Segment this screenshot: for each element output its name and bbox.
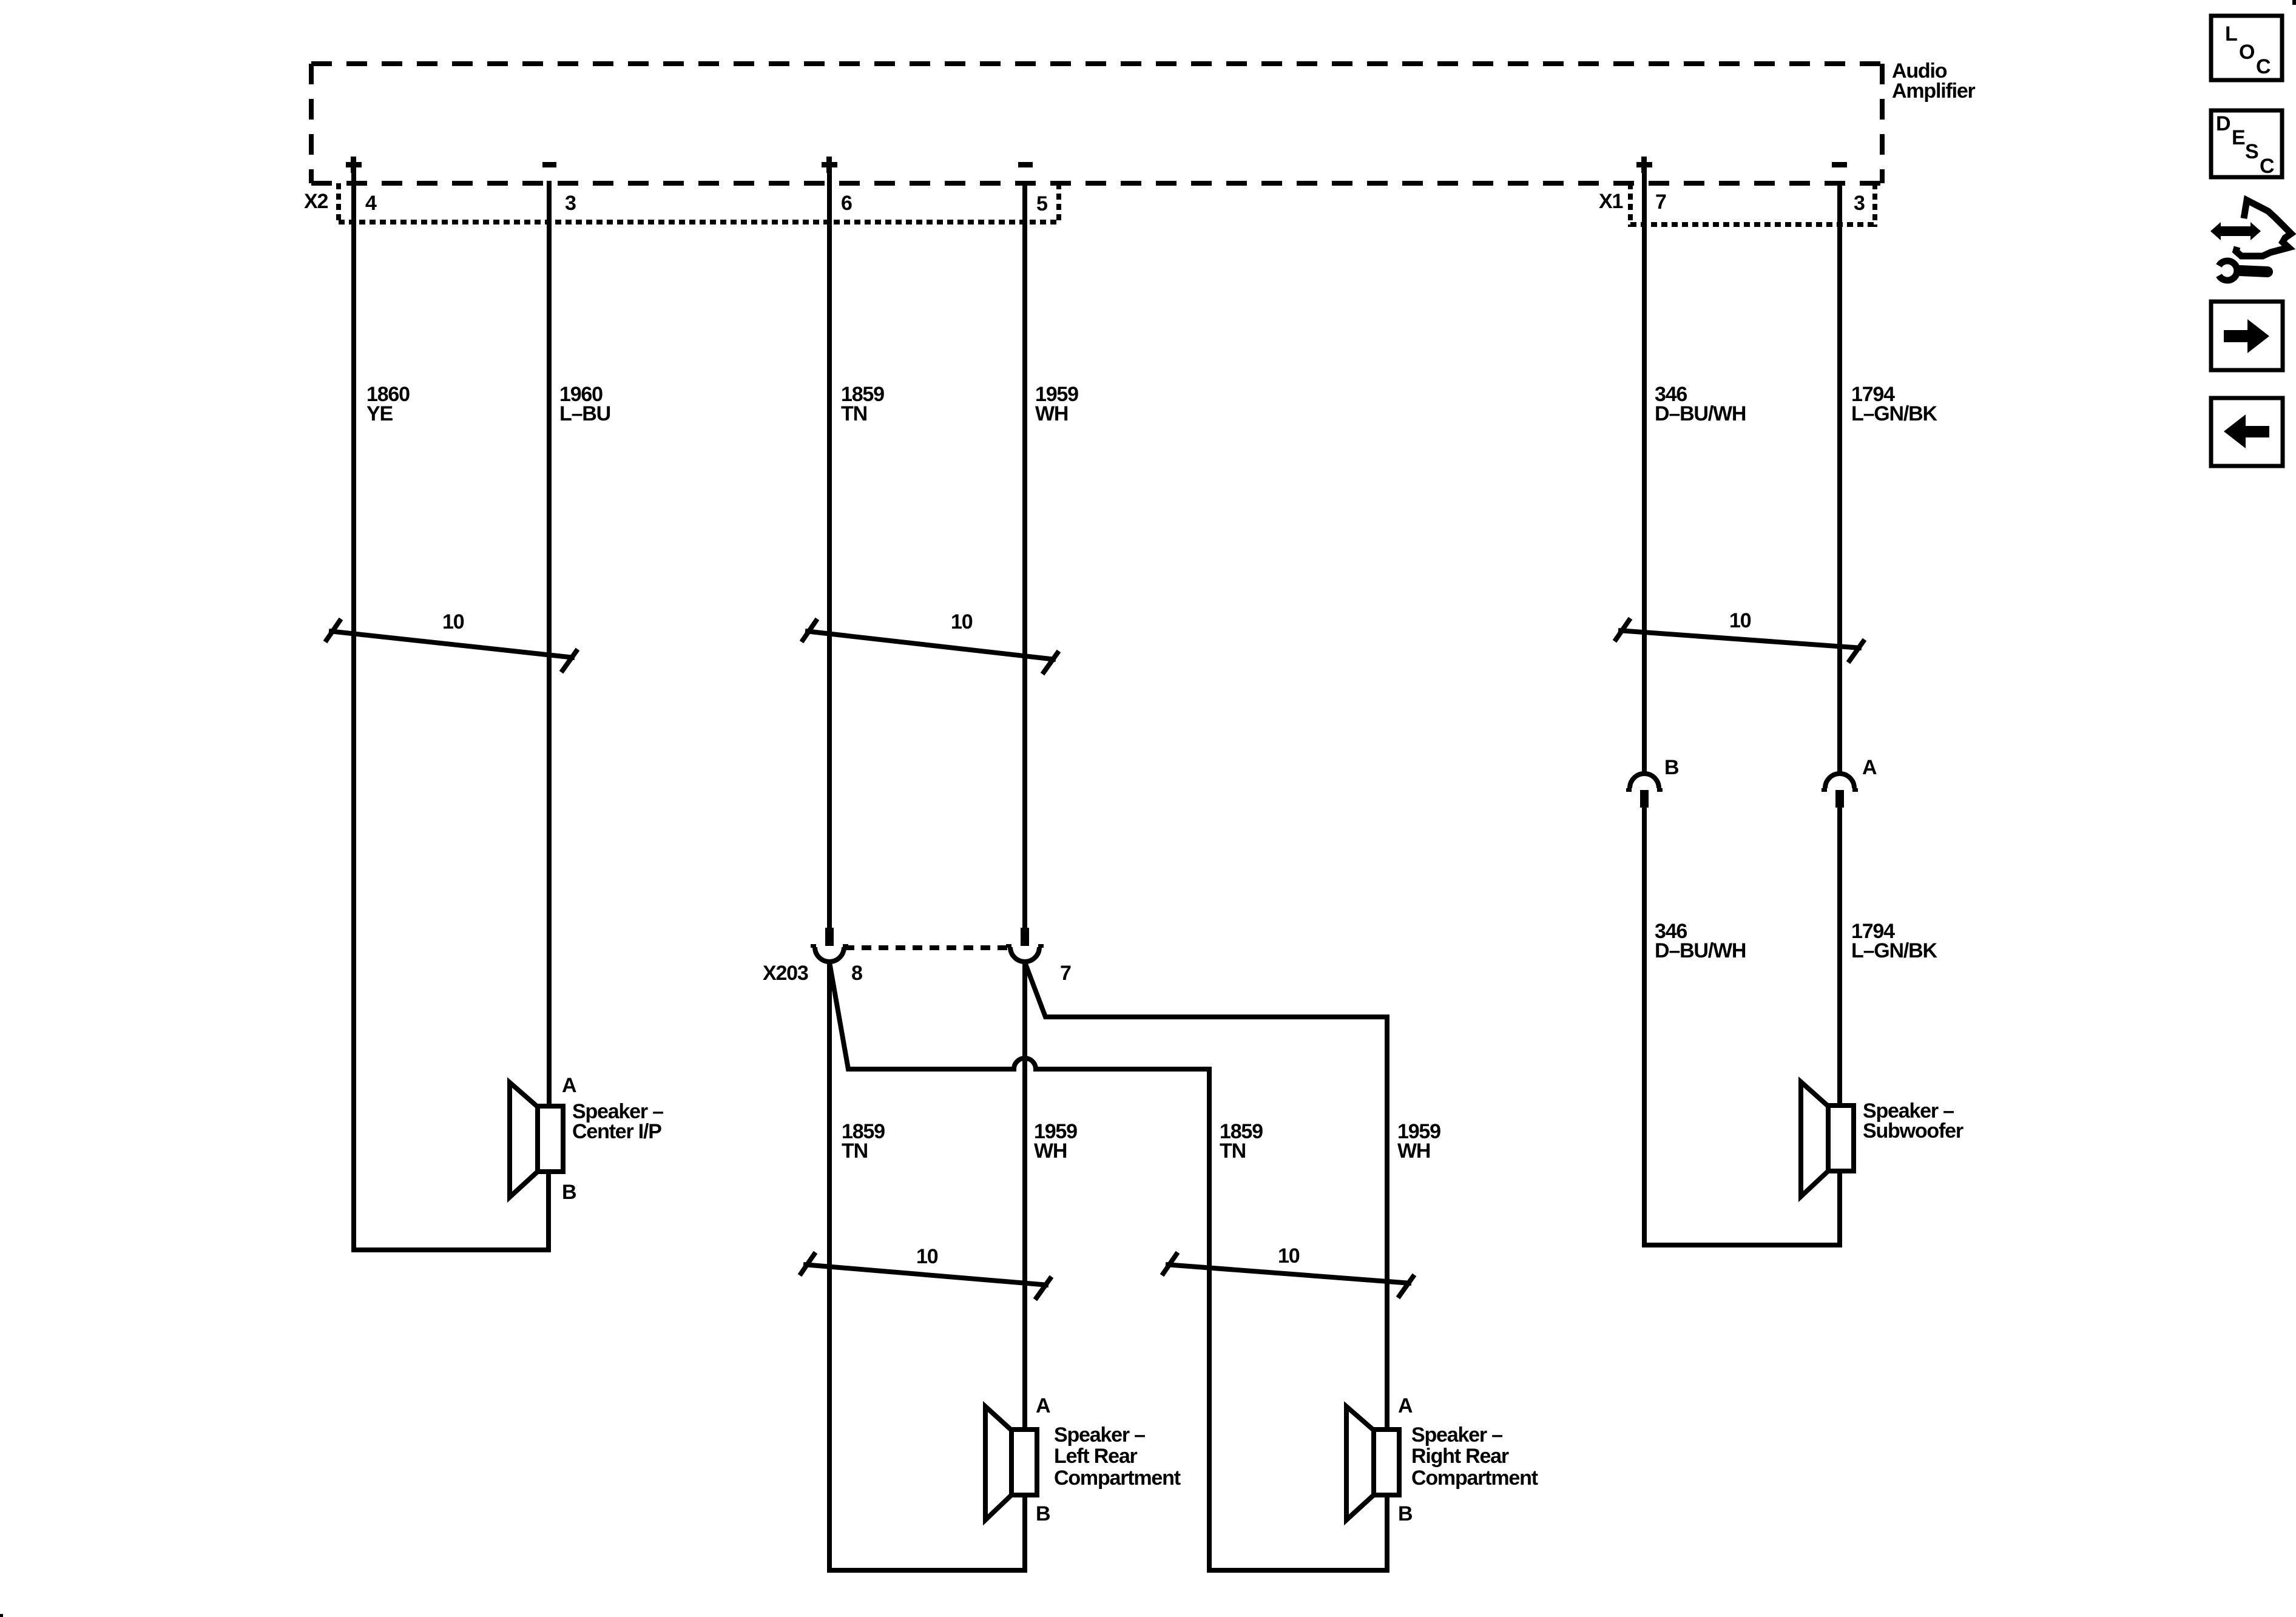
wire 1960 L-BU from X2-3 to center speaker A bbox=[547, 181, 552, 1110]
audio amplifier dashed box bbox=[311, 64, 1882, 183]
page corner mark top right bbox=[2292, 0, 2296, 5]
pin X2-6 plus polarity bbox=[822, 157, 837, 173]
speaker Subwoofer name label bbox=[1863, 1099, 1963, 1143]
svg-text:Speaker –: Speaker – bbox=[1411, 1423, 1502, 1447]
wire 1860 YE label bbox=[366, 383, 410, 425]
connector X2 dotted box bbox=[339, 183, 1059, 224]
wire 1959 WH below X203 to left rear speaker A bbox=[1022, 961, 1027, 1432]
svg-text:Amplifier: Amplifier bbox=[1892, 79, 1976, 103]
svg-text:E: E bbox=[2232, 126, 2245, 149]
svg-text:D–BU/WH: D–BU/WH bbox=[1655, 402, 1746, 425]
wire 1959 WH lower-left label bbox=[1034, 1120, 1077, 1163]
svg-text:A: A bbox=[1036, 1394, 1050, 1417]
wire 346 D-BU/WH from X1-7 to inline connector B bbox=[1642, 172, 1647, 776]
pin X2-5 minus polarity bbox=[1018, 162, 1033, 167]
connector X203 dashed link bbox=[845, 945, 1010, 950]
svg-text:A: A bbox=[1398, 1394, 1413, 1417]
wire 346 D-BU/WH below connector B to subwoofer loop bbox=[1644, 808, 1840, 1245]
inline connector B on wire 346 bbox=[1626, 774, 1663, 808]
pin X2-4 plus polarity bbox=[346, 157, 362, 173]
svg-text:A: A bbox=[1862, 756, 1877, 779]
wire 1859 TN branch from X203 pin 8 to right rear speaker B loop bbox=[829, 962, 1387, 1570]
wire 1859 TN lower-right label bbox=[1220, 1120, 1263, 1163]
svg-text:B: B bbox=[1398, 1502, 1413, 1525]
svg-text:X1: X1 bbox=[1599, 190, 1622, 213]
wire 1959 WH label bbox=[1035, 383, 1078, 425]
svg-text:8: 8 bbox=[851, 962, 862, 985]
svg-text:7: 7 bbox=[1655, 191, 1666, 214]
svg-text:O: O bbox=[2239, 41, 2255, 64]
svg-text:L: L bbox=[2225, 22, 2237, 46]
svg-text:A: A bbox=[562, 1074, 576, 1097]
wire 1859 TN below X203 to left rear speaker B loop bbox=[829, 961, 1025, 1570]
svg-text:YE: YE bbox=[366, 402, 393, 425]
wire 346 D-BU/WH label bbox=[1655, 383, 1746, 425]
svg-text:B: B bbox=[1036, 1502, 1050, 1525]
pin X2-3 minus polarity bbox=[542, 162, 556, 167]
Audio Amplifier label bbox=[1892, 59, 1976, 103]
service icon connector outline bbox=[2236, 200, 2291, 256]
speaker Left Rear Compartment symbol bbox=[985, 1406, 1037, 1520]
svg-text:B: B bbox=[1664, 756, 1679, 779]
svg-text:Compartment: Compartment bbox=[1411, 1467, 1538, 1490]
wire 1859 TN label bbox=[841, 383, 884, 425]
wire 1959 WH branch from X203 pin 7 to right rear speaker A bbox=[1025, 962, 1387, 1432]
speaker Center I/P symbol bbox=[510, 1082, 563, 1197]
right arrow legend box bbox=[2211, 302, 2283, 370]
svg-text:3: 3 bbox=[565, 192, 576, 215]
speaker Right Rear name label bbox=[1411, 1423, 1538, 1490]
wire 1959 WH from X2-5 to X203 pin 7 bbox=[1022, 181, 1027, 929]
wire 1959 WH lower-right label bbox=[1397, 1120, 1440, 1163]
twisted pair symbol 10 for left rear speaker wires bbox=[800, 1252, 1052, 1300]
service icon double arrow bbox=[2210, 222, 2261, 240]
svg-text:S: S bbox=[2245, 140, 2258, 163]
twisted pair symbol 10 for wires 1859/1959 bbox=[802, 619, 1059, 674]
svg-text:6: 6 bbox=[841, 192, 852, 215]
twisted pair symbol 10 for right rear speaker wires bbox=[1162, 1252, 1414, 1298]
svg-text:Speaker –: Speaker – bbox=[1054, 1423, 1145, 1447]
svg-text:Subwoofer: Subwoofer bbox=[1863, 1119, 1963, 1143]
svg-text:10: 10 bbox=[442, 610, 464, 633]
svg-text:D: D bbox=[2216, 112, 2230, 135]
svg-text:4: 4 bbox=[365, 192, 377, 215]
svg-text:L–GN/BK: L–GN/BK bbox=[1851, 939, 1937, 962]
wire 1794 L-GN/BK lower label bbox=[1851, 920, 1937, 962]
svg-text:WH: WH bbox=[1034, 1139, 1067, 1163]
svg-text:7: 7 bbox=[1060, 962, 1071, 985]
svg-text:X2: X2 bbox=[304, 190, 328, 213]
svg-text:10: 10 bbox=[1278, 1244, 1300, 1268]
wire 1794 L-GN/BK below connector A to subwoofer A bbox=[1837, 808, 1842, 1108]
svg-text:L–GN/BK: L–GN/BK bbox=[1851, 402, 1937, 425]
svg-text:C: C bbox=[2260, 155, 2274, 178]
wire 1859 TN from X2-6 to X203 pin 8 bbox=[827, 172, 832, 929]
svg-text:10: 10 bbox=[916, 1245, 938, 1268]
pin X1-3 minus polarity bbox=[1832, 162, 1847, 167]
wire 1860 YE from X2-4 to center speaker B loop bbox=[354, 172, 549, 1250]
wire 1859 TN lower-left label bbox=[842, 1120, 885, 1163]
svg-text:X203: X203 bbox=[763, 962, 808, 985]
twisted pair symbol 10 for wires 346/1794 bbox=[1615, 618, 1865, 663]
page corner mark bottom left bbox=[0, 1614, 3, 1617]
connector X203 pin 7 bbox=[1006, 928, 1044, 962]
svg-text:5: 5 bbox=[1036, 192, 1047, 215]
twisted pair symbol 10 for wires 1860/1960 bbox=[325, 619, 578, 672]
svg-text:B: B bbox=[562, 1181, 576, 1204]
wire 346 D-BU/WH lower label bbox=[1655, 920, 1746, 962]
speaker Center I/P name label bbox=[572, 1100, 663, 1143]
svg-text:WH: WH bbox=[1397, 1139, 1430, 1163]
speaker Right Rear Compartment symbol bbox=[1346, 1406, 1399, 1520]
connector X1 dotted box bbox=[1630, 183, 1875, 227]
svg-text:L–BU: L–BU bbox=[559, 402, 610, 425]
svg-text:TN: TN bbox=[841, 402, 867, 425]
speaker Subwoofer symbol bbox=[1801, 1082, 1854, 1197]
inline connector A on wire 1794 bbox=[1822, 774, 1858, 808]
svg-text:TN: TN bbox=[1220, 1139, 1246, 1163]
svg-text:Compartment: Compartment bbox=[1054, 1467, 1181, 1490]
svg-text:3: 3 bbox=[1854, 192, 1865, 215]
wire 1794 L-GN/BK label bbox=[1851, 383, 1937, 425]
svg-text:Right Rear: Right Rear bbox=[1411, 1445, 1509, 1468]
LOC legend box bbox=[2211, 16, 2282, 80]
wire 1960 L-BU label bbox=[559, 383, 610, 425]
svg-text:TN: TN bbox=[842, 1139, 868, 1163]
speaker Left Rear name label bbox=[1054, 1423, 1181, 1490]
pin X1-7 plus polarity bbox=[1636, 157, 1652, 173]
connector X203 pin 8 bbox=[811, 928, 848, 962]
left arrow legend box bbox=[2211, 398, 2283, 466]
svg-text:10: 10 bbox=[951, 610, 973, 633]
svg-text:C: C bbox=[2256, 55, 2271, 78]
svg-text:10: 10 bbox=[1729, 609, 1751, 632]
svg-text:Left Rear: Left Rear bbox=[1054, 1445, 1138, 1468]
wire 1794 L-GN/BK from X1-3 to inline connector A bbox=[1837, 181, 1842, 776]
svg-text:D–BU/WH: D–BU/WH bbox=[1655, 939, 1746, 962]
svg-text:Center I/P: Center I/P bbox=[572, 1120, 661, 1143]
DESC legend box bbox=[2211, 110, 2282, 178]
service icon wrench bbox=[2219, 261, 2267, 280]
svg-text:WH: WH bbox=[1035, 402, 1068, 425]
